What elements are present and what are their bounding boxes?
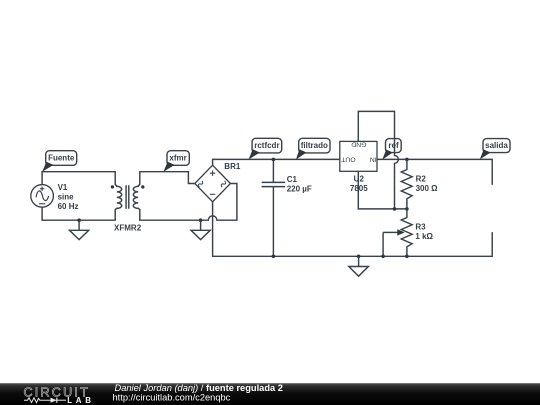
wire secondary top to bridge: [140, 172, 195, 185]
node dot C1 bottom: [272, 254, 276, 258]
svg-text:OUT: OUT: [341, 156, 355, 163]
CircuitLab logo wordmark: [24, 386, 90, 400]
svg-text:BR1: BR1: [224, 162, 241, 171]
flag filtrado: [296, 138, 330, 159]
svg-text:R2: R2: [416, 175, 427, 184]
svg-text:LAB: LAB: [67, 396, 95, 405]
flag salida: [480, 139, 510, 160]
svg-text:60 Hz: 60 Hz: [58, 202, 79, 211]
wire U2 GND loop with hop over IN wire: [358, 111, 398, 208]
node junction dot at ground 1: [77, 218, 81, 222]
wire bridge bottom to ground rail: [213, 202, 493, 256]
svg-text:http://circuitlab.com/c2enqbc: http://circuitlab.com/c2enqbc: [113, 392, 231, 402]
node dot gnd row left: [393, 207, 397, 211]
svg-text:XFMR2: XFMR2: [114, 224, 142, 233]
core lines: [126, 185, 129, 209]
svg-text:300 Ω: 300 Ω: [416, 184, 439, 193]
secondary polarity dot: [141, 185, 144, 188]
R3 wiper arrow: [383, 229, 405, 256]
node dot R3 bottom: [405, 254, 409, 258]
svg-text:V1: V1: [58, 183, 68, 192]
svg-text:U2: U2: [354, 175, 365, 184]
resistor R2: [401, 159, 412, 209]
flag rctfcdr: [249, 138, 282, 159]
regulator U2: [340, 141, 377, 172]
flag ref (drawn under wires): [382, 139, 401, 160]
ground 3: [349, 256, 369, 276]
wire V1 top to transformer primary: [42, 172, 115, 185]
wire V1 bottom rail: [42, 207, 115, 220]
svg-text:Fuente: Fuente: [48, 153, 75, 162]
svg-text:xfmr: xfmr: [169, 153, 186, 162]
wire U2 bottom pin to R2 bottom row: [358, 171, 407, 209]
svg-text:7805: 7805: [350, 184, 368, 193]
svg-text:R3: R3: [415, 223, 426, 232]
logo resistor-diode row: [24, 396, 95, 405]
capacitor C1: [262, 159, 286, 256]
svg-text:salida: salida: [485, 141, 508, 150]
bridge rectifier BR1: [195, 165, 231, 202]
ground 1: [70, 220, 89, 239]
svg-text:1 kΩ: 1 kΩ: [415, 232, 433, 241]
node dot ground 3: [357, 254, 361, 258]
svg-text:C1: C1: [287, 175, 298, 184]
svg-text:ref: ref: [388, 141, 399, 150]
ground 2: [191, 220, 210, 239]
svg-text:sine: sine: [58, 192, 75, 201]
svg-text:IN: IN: [370, 156, 377, 163]
flag xfmr: [163, 151, 189, 172]
primary winding: [115, 185, 122, 209]
node dot wiper bottom: [381, 254, 385, 258]
node dot gnd row right: [405, 207, 409, 211]
svg-text:filtrado: filtrado: [301, 141, 328, 150]
primary polarity dot: [111, 185, 114, 188]
node junction dot at ground 2: [199, 218, 203, 222]
node dot R2 top: [405, 158, 409, 162]
potentiometer R3: [401, 209, 412, 256]
svg-text:rctfcdr: rctfcdr: [254, 141, 279, 150]
svg-text:Daniel Jordan (danj) / fuente: Daniel Jordan (danj) / fuente regulada 2: [115, 383, 283, 393]
svg-text:220 µF: 220 µF: [287, 185, 312, 194]
svg-text:GND: GND: [351, 141, 366, 148]
footer bar: [0, 383, 540, 405]
voltage source V1: [31, 185, 54, 208]
wire bridge top to U2 OUT (top rail): [213, 159, 340, 165]
wire secondary bottom rail with hop: [140, 184, 237, 221]
transformer XFMR2: [111, 185, 145, 209]
node dot C1 top: [272, 158, 276, 162]
wire U2 IN to salida stub: [377, 159, 492, 185]
secondary winding: [133, 185, 140, 209]
flag Fuente: [42, 151, 76, 172]
